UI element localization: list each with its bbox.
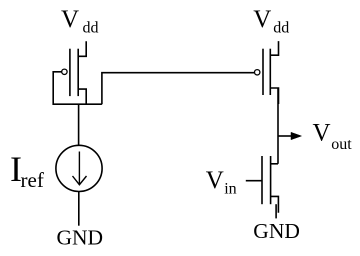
svg-text:in: in xyxy=(224,180,236,197)
wire output branch to Vout arrow xyxy=(278,135,292,137)
svg-text:out: out xyxy=(331,136,352,153)
wire Vdd-left to M1 source xyxy=(78,41,86,56)
wire M1 drain down to current source xyxy=(78,104,80,145)
svg-text:V: V xyxy=(206,167,224,194)
wire Vdd-right to M2 source xyxy=(270,41,278,55)
label Vout xyxy=(313,120,353,154)
label Vdd (left supply) xyxy=(61,6,99,37)
svg-text:GND: GND xyxy=(57,226,104,250)
svg-text:dd: dd xyxy=(273,19,289,36)
svg-text:V: V xyxy=(61,6,79,33)
transistor M2 (PMOS mirror output, right) xyxy=(255,49,279,104)
wire M2 drain to M3 drain (output node) xyxy=(277,88,279,164)
label Iref xyxy=(10,149,44,192)
svg-text:dd: dd xyxy=(83,20,99,37)
wire Vin to M3 gate xyxy=(246,180,262,182)
arrowhead Vout xyxy=(291,132,302,139)
label Vin xyxy=(206,167,237,197)
wire gate bus from M1 drain node to M2 gate xyxy=(102,73,255,105)
svg-text:V: V xyxy=(313,120,331,147)
svg-text:GND: GND xyxy=(253,219,300,243)
transistor M3 (NMOS, right bottom) xyxy=(262,156,278,213)
wire M1 gate to diode connection (left loop) xyxy=(53,72,102,104)
wire current source to ground xyxy=(78,192,80,226)
transistor M1 (diode-connected PMOS, left) xyxy=(62,49,86,104)
current source I1 xyxy=(56,145,102,191)
wire M3 source to ground xyxy=(275,204,277,218)
label Vdd (right supply) xyxy=(253,6,289,36)
svg-text:V: V xyxy=(253,6,271,33)
svg-text:ref: ref xyxy=(21,168,44,192)
